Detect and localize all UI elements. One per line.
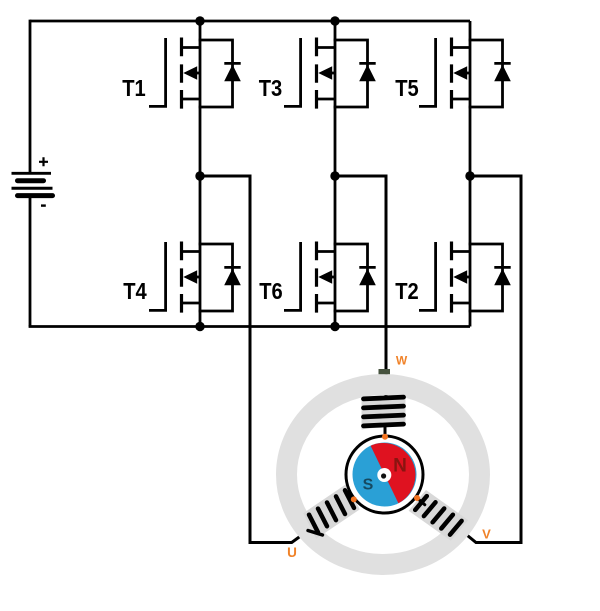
body diode of T4	[199, 244, 241, 311]
battery + terminal label	[39, 157, 48, 166]
node: bottom rail / T6 source junction	[330, 322, 339, 331]
node: phase W midpoint junction	[330, 171, 339, 180]
substrate arrow of T6	[318, 270, 335, 283]
channel bars of T6	[315, 242, 318, 313]
wire: phase V from leg 3 midpoint to motor terminal V	[457, 176, 522, 543]
node: motor terminal V (orange)	[414, 495, 420, 501]
svg-text:T4: T4	[123, 278, 147, 304]
winding U coil body (gray)	[303, 484, 360, 539]
gate lead of T2	[419, 242, 436, 310]
source stub of T2	[452, 302, 471, 305]
drain stub of T6	[317, 250, 336, 253]
drain stub of T3	[317, 46, 336, 49]
gate lead of T6	[284, 242, 301, 310]
node: phase U midpoint junction	[195, 171, 204, 180]
svg-text:W: W	[396, 354, 408, 368]
channel bars of T3	[315, 38, 318, 109]
rotor magnet S pole (blue)	[353, 443, 417, 507]
drain stub of T4	[182, 250, 201, 253]
substrate arrow of T2	[453, 270, 470, 283]
svg-text:T6: T6	[259, 278, 283, 304]
node: motor terminal U (orange)	[351, 496, 357, 502]
gate lead of T1	[149, 38, 166, 106]
rotor outline circle	[346, 436, 423, 513]
inductor winding U (stator coil)	[309, 490, 354, 532]
winding V coil body (gray)	[409, 490, 469, 541]
transistor T1 (N-channel MOSFET)	[149, 38, 241, 109]
svg-text:V: V	[482, 527, 491, 542]
source stub of T5	[452, 98, 471, 101]
body diode of T1	[199, 40, 241, 107]
node: phase V midpoint junction	[465, 171, 474, 180]
source stub of T3	[317, 98, 336, 101]
drain stub of T1	[182, 46, 201, 49]
wire: U coil entry turn	[308, 531, 323, 536]
channel bars of T1	[180, 38, 183, 109]
drain stub of T5	[452, 46, 471, 49]
svg-text:S: S	[363, 477, 374, 494]
inductor winding V (stator coil)	[415, 496, 461, 535]
wire: DC+ top rail	[30, 20, 470, 23]
wire: V coil exit to terminal	[417, 498, 425, 505]
inductor winding W (stator coil)	[364, 397, 404, 426]
wire: phase W from leg 2 midpoint to motor terminal W	[335, 176, 386, 397]
body diode of T6	[334, 244, 376, 311]
battery B1	[12, 173, 53, 195]
svg-text:T5: T5	[395, 75, 419, 101]
wire: DC- bottom rail	[29, 325, 470, 328]
transistor T6 (N-channel MOSFET)	[284, 242, 376, 313]
wire: phase U from leg 1 midpoint to motor terminal U	[200, 176, 310, 543]
body diode of T5	[469, 40, 511, 107]
wire: battery positive to top rail	[29, 20, 32, 173]
substrate arrow of T4	[183, 270, 200, 283]
source stub of T1	[182, 98, 201, 101]
transistor T5 (N-channel MOSFET)	[419, 38, 511, 109]
channel bars of T4	[180, 242, 183, 313]
transistor T4 (N-channel MOSFET)	[149, 242, 241, 313]
svg-text:U: U	[287, 545, 297, 560]
node: top rail / T3 drain junction	[330, 16, 339, 25]
rotor magnet N pole (red)	[371, 443, 416, 503]
channel bars of T5	[450, 38, 453, 109]
wire: leg 1 vertical (T1 drain-source chain, x=200)	[199, 21, 202, 327]
sensor square on W lead	[379, 369, 391, 374]
motor stator ring	[287, 385, 480, 565]
transistor T3 (N-channel MOSFET)	[284, 38, 376, 109]
wire: V coil entry turn	[451, 526, 457, 534]
source stub of T6	[317, 302, 336, 305]
node: top rail / T1 drain junction	[195, 16, 204, 25]
substrate arrow of T1	[183, 66, 200, 79]
substrate arrow of T5	[453, 66, 470, 79]
svg-text:N: N	[393, 456, 407, 477]
transistor T2 (N-channel MOSFET)	[419, 242, 511, 313]
svg-text:T1: T1	[122, 75, 146, 101]
channel bars of T2	[450, 242, 453, 313]
svg-text:T3: T3	[259, 75, 283, 101]
wire: U coil exit to terminal	[349, 492, 355, 500]
rotor shaft	[377, 468, 391, 482]
substrate arrow of T3	[318, 66, 335, 79]
node: bottom rail / T4 source junction	[195, 322, 204, 331]
svg-text:T2: T2	[395, 278, 419, 304]
source stub of T4	[182, 302, 201, 305]
wire: W coil to rotor terminal	[384, 425, 387, 438]
wire: leg 3 vertical (T5 drain-source chain, x=470)	[469, 21, 472, 327]
gate lead of T4	[149, 242, 166, 310]
wire: leg 2 vertical (T3 drain-source chain, x=335)	[334, 21, 337, 327]
body diode of T2	[469, 244, 511, 311]
body diode of T3	[334, 40, 376, 107]
battery - terminal label	[41, 204, 46, 206]
wire: battery negative to bottom rail	[29, 196, 32, 327]
gate lead of T5	[419, 38, 436, 106]
winding W coil body (gray)	[362, 395, 406, 430]
drain stub of T2	[452, 250, 471, 253]
gate lead of T3	[284, 38, 301, 106]
node: motor terminal W (orange)	[382, 434, 388, 440]
